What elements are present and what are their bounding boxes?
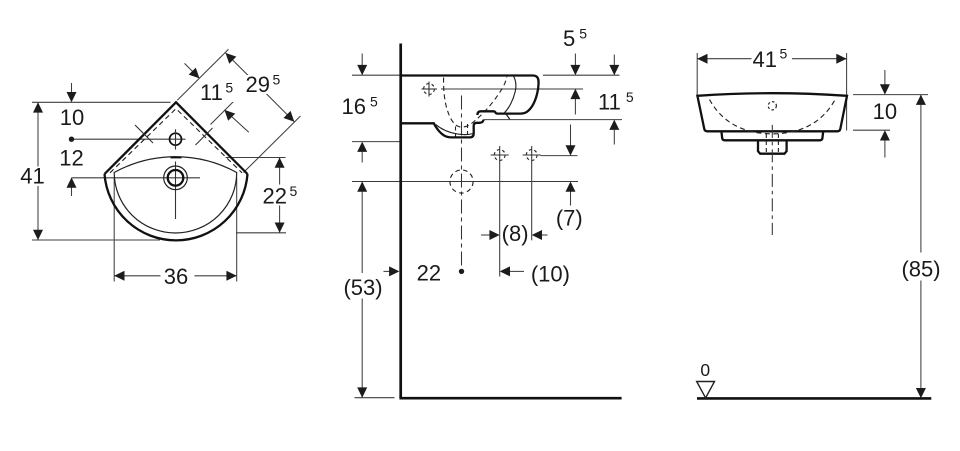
basin outline: corner edges (105, 102, 248, 174)
svg-text:22: 22 (417, 261, 441, 286)
svg-text:12: 12 (59, 146, 83, 171)
node: dot end of 22/(10) dimensions (459, 269, 464, 274)
hidden edge: dashed chevron parallel to edges (110, 109, 242, 173)
label 11.5 diagonal (201, 82, 237, 102)
hidden drain pipe dashes (455, 127, 457, 138)
inner bowl rim (114, 157, 237, 233)
arrow dim10 top (67, 92, 77, 102)
hidden drain pipe dashes (765, 134, 767, 153)
basin rim outline (697, 93, 847, 131)
faucet vertical tick (175, 129, 177, 149)
arrow (53) bottom (357, 387, 367, 397)
arrow (7) bottom (566, 182, 576, 192)
arrow (85) top (916, 95, 926, 105)
dimension 5.5 stubs (574, 54, 576, 67)
floor line middle view (399, 397, 621, 400)
basin profile: bottom with bowl bulge and pedestal step (401, 120, 484, 138)
arrow 5.5 top (570, 65, 580, 75)
label 29.5 diagonal (244, 75, 281, 94)
arrow (85) bottom (916, 388, 926, 398)
wall fixing cross 1 (494, 150, 505, 161)
trap cover (758, 140, 787, 153)
dimension 22 stub at wall (384, 270, 391, 272)
wall fixing cross 2 (526, 150, 537, 161)
dimension (53) line (361, 182, 363, 398)
thin far-edge bottom silhouette (436, 125, 473, 135)
dimension (7) stubs (570, 125, 572, 147)
arrow dim29.5 D (down-right) (283, 111, 294, 122)
arrow dim36 left (114, 271, 124, 281)
fixing tick left edge (135, 125, 153, 143)
hidden bowl dashed (710, 100, 836, 134)
dimension (10) stub (509, 270, 524, 272)
dimension 36 line (114, 275, 237, 277)
dimension (8) stubs (481, 234, 491, 236)
dimension 11.5 stub B (224, 110, 248, 132)
arrow 5.5 bottom (570, 89, 580, 99)
wire: top extension right of basin (543, 74, 620, 76)
dimension 22.5 line (279, 158, 281, 233)
label 41.5 (752, 46, 793, 69)
dimension 12 stub (71, 187, 73, 196)
thin silhouette tail (506, 114, 510, 119)
dimension 29.5 line (226, 53, 295, 122)
arrow dim11.5 B (up-left) (224, 110, 235, 121)
svg-text:10: 10 (60, 105, 84, 130)
faucet hole (768, 102, 776, 110)
dimension 41.5 line (697, 58, 846, 60)
datum zero triangle (697, 382, 715, 398)
svg-text:(85): (85) (901, 257, 940, 282)
svg-text:36: 36 (164, 264, 188, 289)
wall line (399, 44, 402, 399)
wire: 11.5 offset segment (211, 102, 234, 125)
basin profile: top and front (401, 76, 539, 116)
arrow 11.5 top (609, 65, 619, 75)
basin outline: outer front arc (105, 174, 248, 240)
arrow (8) right (532, 230, 542, 240)
wire: fixing holes level extension (541, 155, 578, 157)
svg-text:(8): (8) (502, 221, 529, 246)
faucet fixing cross (424, 84, 435, 95)
wire: fixing hole vertical line 1 (499, 164, 501, 277)
wire: fixing hole vertical line 2 (531, 164, 533, 240)
dimension 11.5 stubs (613, 55, 615, 67)
drain vertical centre line (175, 162, 177, 220)
arrow dim22.5 top (275, 158, 285, 168)
arrow (7) top (566, 145, 576, 155)
dimension 36 extension lines (113, 178, 115, 282)
svg-text:10: 10 (873, 99, 897, 124)
wire: floor extension left of wall (355, 397, 395, 399)
arrow 16.5 top (357, 65, 367, 75)
label 36 (161, 266, 195, 286)
arrow dim41 top (33, 102, 43, 112)
wire: diagonal extension through right corner (244, 116, 301, 173)
dimension 22.5 extension lines (226, 157, 286, 159)
arrow 11.5 bottom (609, 120, 619, 130)
wire: extension line top (vertex level) (32, 101, 171, 103)
pedestal tier (721, 131, 823, 140)
arrow dim29.5 C (up-left) (226, 53, 237, 64)
wire: drain centre line (72, 177, 201, 179)
centre line (771, 125, 773, 235)
wire: drain outlet centre line (352, 181, 578, 183)
dimension 11.5 stub A (185, 63, 200, 78)
svg-text:(7): (7) (556, 206, 583, 231)
dimension 10 extension lines (853, 94, 928, 96)
node: faucet centre line with dot (72, 138, 186, 140)
bowl top tangent dash (171, 156, 182, 158)
label 41 (21, 167, 47, 187)
arrow dim11.5 A (down-right) (189, 68, 200, 79)
wire: diagonal extension of left edge beyond vertex (177, 49, 228, 100)
arrow 10 top (880, 84, 890, 94)
svg-text:41: 41 (20, 163, 44, 188)
arrow dim22.5 bottom (275, 223, 285, 233)
faucet hole (170, 133, 182, 145)
arrow dim36 right (226, 271, 236, 281)
arrow (10) (500, 266, 510, 276)
dimension 10 stubs (884, 70, 886, 86)
label (53) (341, 273, 385, 299)
arrow dim41 bottom (33, 230, 43, 240)
dimension 41.5 extension lines (696, 53, 698, 95)
arrow (53) top (357, 182, 367, 192)
dimension 10 stub (71, 83, 73, 94)
drain hole inner (168, 170, 184, 186)
label 22.5 (261, 185, 298, 206)
label (8) (503, 224, 528, 244)
drain hole outer (164, 166, 188, 190)
drain vertical centre line (461, 96, 463, 272)
wire: extension line bottom (basin front level) (32, 239, 160, 241)
drain outlet dashed circle (450, 170, 473, 193)
fixing tick right edge (196, 128, 213, 145)
label (85) (899, 253, 943, 281)
arrow dim12 bottom (67, 177, 77, 187)
dimension 41 line (37, 102, 39, 240)
arrow 22 at wall (389, 266, 399, 276)
arrow 10 bottom (880, 130, 890, 140)
floor line right view (697, 397, 931, 400)
hidden bowl profile dashed (444, 77, 507, 127)
arrow 41.5 right (836, 54, 846, 64)
arrow (8) left (489, 230, 499, 240)
svg-text:(53): (53) (343, 275, 382, 300)
dimension 16.5 stubs (361, 54, 363, 67)
wire: extension line 11.5 bottom (483, 119, 622, 121)
wire: faucet hole centre line (422, 88, 438, 90)
arrow 16.5 bottom (357, 142, 367, 152)
dimension (85) line (920, 95, 922, 399)
svg-text:(10): (10) (531, 261, 570, 286)
arrow 41.5 left (697, 54, 707, 64)
thin far-edge front silhouette (504, 76, 516, 114)
wire: extension line 16.5 bottom (352, 141, 400, 143)
svg-text:0: 0 (700, 360, 710, 380)
wire: top extension line left of wall (352, 74, 400, 76)
